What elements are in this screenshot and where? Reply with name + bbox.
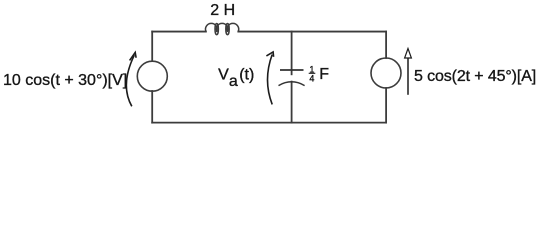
voltage source V1 circle	[137, 61, 167, 91]
wire right vertical lower	[385, 88, 387, 123]
wire top-left segment	[152, 31, 206, 33]
svg-text:10 cos(t + 30°)[V]: 10 cos(t + 30°)[V]	[3, 72, 127, 89]
svg-text:V: V	[218, 66, 229, 83]
svg-text:F: F	[319, 66, 329, 83]
svg-text:a: a	[229, 73, 238, 90]
capacitor value label 1/4 F	[309, 64, 330, 83]
current source direction arrow (open head)	[405, 49, 412, 95]
svg-text:(t): (t)	[239, 66, 254, 83]
wire left vertical upper	[151, 32, 153, 61]
capacitor C1 curved plate	[279, 82, 305, 86]
wire right vertical upper	[385, 32, 387, 58]
current source I1 circle	[371, 58, 401, 88]
svg-text:2 H: 2 H	[210, 2, 235, 19]
wire middle vertical lower	[291, 82, 293, 123]
voltage source polarity curved arrow	[126, 52, 136, 106]
wire middle vertical upper	[291, 32, 293, 75]
svg-text:5 cos(2t + 45°)[A]: 5 cos(2t + 45°)[A]	[414, 68, 536, 85]
svg-text:4: 4	[309, 74, 314, 84]
node voltage Va reference curved arrow	[266, 52, 273, 105]
capacitor C1 top plate	[280, 69, 304, 71]
wire top-right segment	[238, 31, 386, 33]
inductor L1 coil	[205, 23, 238, 34]
wire left vertical lower	[151, 91, 153, 123]
wire bottom segment	[152, 122, 386, 124]
node voltage Va(t) label	[218, 66, 254, 90]
